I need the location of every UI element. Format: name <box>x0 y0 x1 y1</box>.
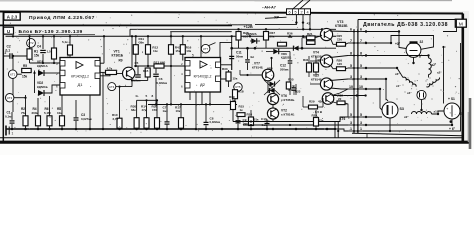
capacitor C7 1mk <box>166 105 168 122</box>
resistor R13 640 <box>154 64 164 68</box>
connector XP box with pins 6 5 2 4 <box>287 9 311 15</box>
wire D2 bottom pin stub 2 <box>189 92 191 100</box>
svg-text:75к: 75к <box>21 111 26 115</box>
resistor R37 20k <box>264 32 269 41</box>
svg-text:8: 8 <box>360 52 362 56</box>
wire D1 top pin to rail <box>103 36 105 63</box>
svg-text:5: 5 <box>146 94 148 98</box>
diode VD1 KD521A <box>38 70 44 76</box>
connector pin row 3 at y=125 <box>348 121 363 126</box>
diode VD6 KD522B <box>273 49 278 54</box>
wire R21 leads <box>302 37 307 39</box>
wire lower node row <box>233 121 273 123</box>
wire VT4 emitter to R26 <box>331 65 337 69</box>
svg-text:М: М <box>459 22 463 28</box>
svg-text:+ S1: + S1 <box>448 97 455 101</box>
svg-text:43к: 43к <box>318 100 323 104</box>
capacitor C4 on vertical wire <box>42 36 44 49</box>
wire row 5 into star <box>363 68 403 78</box>
wire tach bottom down <box>413 57 415 63</box>
svg-text:11к: 11к <box>153 49 158 53</box>
svg-text:10к: 10к <box>186 49 191 53</box>
wire R25 to row 7 <box>346 43 349 44</box>
wire D2 right pin upper <box>221 64 232 66</box>
svg-text:КТ6: КТ6 <box>340 117 346 121</box>
bottom left connector mark <box>6 126 14 136</box>
svg-text:7: 7 <box>360 39 362 43</box>
svg-text:15к: 15к <box>319 119 324 123</box>
svg-text:5: 5 <box>294 11 296 15</box>
wire KT3 right <box>14 97 26 99</box>
svg-text:5: 5 <box>360 64 362 68</box>
resistor R31 4.3k <box>307 63 312 72</box>
frame label box A2.3 <box>4 12 20 20</box>
resistor R12 11k <box>147 36 149 44</box>
connector pin row 5 at y=68 <box>348 64 363 69</box>
svg-text:х1°: х1° <box>396 84 401 88</box>
resistor R9 4.7k <box>106 70 117 74</box>
svg-text:51к: 51к <box>254 118 259 122</box>
inner frame line second <box>170 31 232 33</box>
op-amp D2 KR140UD1208 <box>181 54 221 93</box>
wire R5 node down <box>34 71 36 94</box>
resistor R7 5.1k top <box>69 36 71 45</box>
svg-text:R15: R15 <box>143 69 149 73</box>
motor box M symbol <box>455 19 466 27</box>
resistor R28 910 <box>236 32 241 41</box>
motor long right vertical <box>460 43 462 127</box>
capacitor C6 0.022mk <box>155 66 157 73</box>
svg-text:Блок БУ-139 2.390.139: Блок БУ-139 2.390.139 <box>19 29 83 35</box>
resistor R35 box <box>286 82 290 89</box>
svg-text:6: 6 <box>350 28 352 32</box>
svg-text:50мк: 50мк <box>236 54 244 58</box>
wire R1 bottom down <box>29 59 31 63</box>
svg-text:R5: R5 <box>23 64 27 68</box>
resistor R17 10k <box>180 105 182 118</box>
diode VD7 <box>269 81 274 86</box>
svg-text:R20: R20 <box>312 114 318 118</box>
transistor VT5 KT814B <box>320 78 332 90</box>
wire corner at KT7 down <box>220 42 232 57</box>
wire VT9 to rows <box>332 89 349 96</box>
wire inductor to S1 <box>432 111 445 114</box>
motor switch S3 circle <box>382 102 398 118</box>
svg-text:120: 120 <box>337 37 342 41</box>
svg-text:1мк: 1мк <box>163 109 169 113</box>
svg-text:5,1М: 5,1М <box>44 111 51 115</box>
capacitor C2 <box>10 53 12 59</box>
dot under S1 <box>450 120 453 123</box>
svg-text:22: 22 <box>338 97 342 101</box>
resistor R38 150 <box>156 100 158 117</box>
svg-text:0,1: 0,1 <box>6 49 11 53</box>
wire C3 to bus <box>75 121 77 129</box>
svg-text:+12В: +12В <box>244 25 253 29</box>
svg-text:15к: 15к <box>22 75 28 79</box>
wire XP pin 5 to +12V branch <box>255 15 296 25</box>
svg-text:Двигатель ДБ-038 3.120.038: Двигатель ДБ-038 3.120.038 <box>363 22 448 28</box>
wire D2 output right <box>221 72 227 79</box>
rail junction dots <box>12 35 311 37</box>
connector pin row 5 at y=117 <box>348 113 363 118</box>
wire G node row <box>137 99 158 101</box>
svg-text:6: 6 <box>288 11 290 15</box>
wire input from border <box>3 55 10 57</box>
svg-text:КТВ15Б: КТВ15Б <box>335 24 348 28</box>
wire XP pin 4 down to top rail <box>309 15 311 30</box>
svg-text:200к: 200к <box>32 111 39 115</box>
diode VD2 KD521B <box>38 90 44 96</box>
connector column left line <box>353 29 355 133</box>
scan speckles motor <box>396 73 441 104</box>
svg-text:С4: С4 <box>37 45 41 49</box>
svg-text:200мк: 200мк <box>280 67 289 71</box>
wire VT7 collector up <box>271 58 273 71</box>
svg-text:10к: 10к <box>176 109 181 113</box>
svg-text:5: 5 <box>67 54 69 58</box>
svg-text:1к: 1к <box>240 108 244 112</box>
motor star winding loops <box>403 77 440 98</box>
svg-text:0,022мк: 0,022мк <box>157 81 168 85</box>
svg-text:А 2.3: А 2.3 <box>7 15 18 20</box>
inner frame line upper <box>130 28 224 30</box>
motor horizontal inductor <box>412 112 432 114</box>
svg-text:U: U <box>7 29 10 34</box>
wire motor top right vertical <box>443 20 457 32</box>
svg-text:8: 8 <box>152 94 154 98</box>
outer frame top line <box>0 12 463 14</box>
wire row 6 to tach <box>363 32 406 49</box>
wire row 3 lower <box>243 124 348 126</box>
svg-text:х КТ814Б: х КТ814Б <box>281 112 295 116</box>
connector pin row 8 at y=55.5 <box>348 52 363 57</box>
motor box left border <box>357 20 359 134</box>
resistor R33 1k <box>228 70 230 72</box>
svg-text:15к: 15к <box>233 77 238 81</box>
wire VT7 emitter down <box>267 81 269 93</box>
connector pin row 6 at y=31.5 <box>348 28 363 33</box>
svg-text:10: 10 <box>349 85 353 89</box>
ground bus <box>6 128 336 130</box>
wire VT3 emitter to R25 <box>331 39 337 45</box>
svg-text:32: 32 <box>420 40 424 44</box>
svg-text:5: 5 <box>360 113 362 117</box>
wire XP left stub <box>265 17 287 18</box>
svg-text:G.: G. <box>136 94 139 98</box>
wire VT7 base left <box>240 74 262 76</box>
motor mid vertical x443 <box>443 47 445 104</box>
wire right of diodes <box>289 75 291 95</box>
svg-text:R33: R33 <box>222 67 228 71</box>
transistor VT1 KT361B <box>123 67 135 79</box>
wire VT2 emitter down <box>272 119 274 121</box>
wire R2 to bus <box>25 126 27 129</box>
paper background <box>0 0 474 155</box>
svg-text:R18: R18 <box>238 90 244 94</box>
capacitor C13 plates <box>292 88 296 90</box>
connector column right line <box>357 29 359 133</box>
vertical wire x303 lower <box>302 96 304 107</box>
wire KT4 to VT1 emitter <box>116 86 132 88</box>
transistor VT2 KT814B <box>267 108 278 119</box>
wire R26 to row 5 <box>346 67 349 70</box>
wire VT4 collector to row 8 <box>330 56 348 58</box>
wire node to VT7 base <box>239 70 241 75</box>
motor inner step line <box>366 133 368 137</box>
svg-text:4: 4 <box>306 11 308 15</box>
svg-text:0,1м: 0,1м <box>5 115 12 119</box>
svg-text:R24: R24 <box>318 58 324 62</box>
top feed rail right <box>224 28 336 30</box>
connector pin row 7 at y=43 <box>348 39 363 44</box>
frame label box U <box>4 27 14 34</box>
motor tach circle <box>406 41 421 57</box>
scan tint over drawing area <box>0 11 469 143</box>
capacitor C1 <box>10 121 15 123</box>
outer frame left border <box>2 12 4 143</box>
capacitor C14 below node <box>247 48 249 59</box>
svg-text:7: 7 <box>350 39 352 43</box>
wire R33 bottom <box>228 81 230 87</box>
wire R8 to bus <box>61 126 63 129</box>
svg-text:R29: R29 <box>309 100 315 104</box>
wire C11 down <box>231 60 233 71</box>
resistor R15 below node <box>145 68 150 77</box>
svg-text:R9: R9 <box>119 59 123 63</box>
svg-text:1: 1 <box>12 132 14 136</box>
capacitor C3 0.027mk <box>75 100 77 117</box>
wire VT5 emitter to row 10 <box>331 88 349 89</box>
wire D1 bottom to bus <box>89 95 91 129</box>
transistor VT4 KT815B <box>320 55 332 67</box>
svg-text:х2°: х2° <box>437 71 442 75</box>
rail y48 dots <box>230 47 303 50</box>
transistor VT7 KT814B <box>262 69 274 81</box>
outer frame bottom inner line <box>0 137 463 139</box>
resistor R21 51 <box>307 36 316 40</box>
mid node dots <box>135 65 173 67</box>
svg-text:4,7к: 4,7к <box>107 66 113 70</box>
row extra y95.5 <box>334 95 367 97</box>
svg-text:150: 150 <box>152 108 157 112</box>
vertical feed x231.7 <box>231 36 233 70</box>
svg-text:15к: 15к <box>34 54 40 58</box>
resistor R41 15k <box>170 32 172 45</box>
wire branch x13 down <box>12 56 14 112</box>
capacitor C8 0.022mk <box>205 105 207 123</box>
svg-text:3: 3 <box>350 75 352 79</box>
top scan edge line <box>0 0 452 2</box>
connector pin row 1 at y=131 <box>348 127 363 132</box>
diode VD9 on rail <box>293 46 298 51</box>
resistor R5 15k <box>22 68 32 72</box>
svg-text:КР140УД1,2: КР140УД1,2 <box>194 75 212 79</box>
wire R9 lead to bus <box>102 92 104 129</box>
connector pin row 3 at y=79 <box>348 75 363 80</box>
wire R12 down <box>147 54 149 66</box>
wire S3 bottom down <box>389 118 391 131</box>
rail y48 right <box>232 47 336 49</box>
wire x296 segment <box>295 84 297 95</box>
svg-text:3: 3 <box>360 121 362 125</box>
svg-text:КТ1: КТ1 <box>10 72 15 76</box>
resistor R22 second box <box>307 41 316 45</box>
svg-text:5: 5 <box>192 54 194 58</box>
top rail dots <box>237 28 323 30</box>
wire mid horizontal y104 <box>148 104 237 106</box>
svg-text:5: 5 <box>350 113 352 117</box>
wire KT1 to R5 <box>17 73 22 75</box>
scan dark right edge <box>469 98 472 149</box>
wire VT3 collector to row 6 <box>330 30 348 33</box>
ground bus dots <box>11 128 329 131</box>
wire row 5 lower to S3 <box>363 116 382 118</box>
svg-text:Ел: Ел <box>251 55 255 59</box>
resistor R3 <box>53 36 55 48</box>
svg-text:R31: R31 <box>303 58 309 62</box>
wire R9 left lead down to R10 <box>102 72 104 92</box>
wire D2 second bottom <box>209 92 211 105</box>
svg-text:2,7к: 2,7к <box>113 117 119 121</box>
resistor R36 13k <box>278 42 287 46</box>
wire C2 to R1 node <box>12 55 29 57</box>
resistor R6 5.1M <box>49 96 51 116</box>
svg-text:3: 3 <box>360 75 362 79</box>
test point KT3 <box>6 94 14 102</box>
svg-text:68к: 68к <box>131 108 136 112</box>
BU block top border line <box>0 24 232 26</box>
svg-text:R13 640: R13 640 <box>154 61 166 65</box>
vertical wire x323 <box>322 98 324 107</box>
capacitor C10 1mk <box>265 121 270 123</box>
outer frame right border <box>461 14 464 144</box>
resistor R18 1.5k <box>233 90 238 99</box>
wire R6 to bus <box>49 126 51 129</box>
wire base feeds to output transistors <box>321 35 322 36</box>
resistor R4 200k <box>37 98 39 116</box>
svg-text:⌐АН-А7: ⌐АН-А7 <box>262 5 276 9</box>
svg-text:20к: 20к <box>270 35 275 39</box>
node wire above D1 <box>30 62 71 64</box>
transistor VT9 output <box>322 93 334 105</box>
star center rotor circle <box>417 90 426 99</box>
svg-text:13к: 13к <box>288 35 293 39</box>
wire R11 down <box>135 54 137 66</box>
wire row 7 to tach right side <box>363 36 434 50</box>
resistor R24 <box>314 63 319 72</box>
scan speckle noise <box>7 14 462 137</box>
wire C12 vertical <box>289 52 291 61</box>
connector pin row 10 at y=89 <box>348 85 363 90</box>
test point KT7 with arrow <box>201 44 210 53</box>
transistor VT3 KTV15B <box>320 28 332 40</box>
wire VT6 to VT2 <box>272 105 274 108</box>
svg-text:0,027мк: 0,027мк <box>81 117 92 121</box>
wire row 8 to coil <box>363 56 429 59</box>
diode VD8 <box>269 88 274 93</box>
test point KT1 <box>8 70 17 79</box>
svg-text:1: 1 <box>350 127 352 131</box>
svg-text:10к: 10к <box>57 111 62 115</box>
resistor R2 75k <box>25 95 27 116</box>
svg-text:39к: 39к <box>139 41 144 45</box>
svg-text:Д1: Д1 <box>78 82 84 87</box>
svg-text:120: 120 <box>337 62 342 66</box>
svg-text:5,1к: 5,1к <box>62 40 68 44</box>
capacitor C9 1mk <box>236 121 241 123</box>
wire VT5 collector to row 3 <box>330 79 348 81</box>
wire XP pin 2 down to top rail <box>302 15 304 30</box>
svg-text:КР140УД1,2: КР140УД1,2 <box>71 75 89 79</box>
wire KT2 stub <box>29 36 31 49</box>
svg-text:8: 8 <box>350 52 352 56</box>
svg-text:10: 10 <box>359 85 363 89</box>
wire S1 down to rows <box>363 119 452 125</box>
transistor VT6 KT361B <box>267 93 278 104</box>
svg-text:КТ361Б: КТ361Б <box>112 53 124 57</box>
resistor R8 10k <box>61 95 63 116</box>
vertical pair to bottom edge <box>334 122 336 138</box>
svg-text:VD5: VD5 <box>267 67 273 71</box>
svg-text:КД521Б: КД521Б <box>37 85 48 89</box>
svg-text:2: 2 <box>300 11 302 15</box>
wire R7 down to D1 <box>69 55 71 58</box>
motor box bottom border <box>352 133 462 136</box>
test point KT2 <box>27 39 36 48</box>
cable wires to XA4-A7 going up <box>293 0 303 9</box>
svg-text:R21: R21 <box>307 32 313 36</box>
outer frame bottom thick line <box>0 141 470 144</box>
svg-text:R35: R35 <box>288 78 294 82</box>
svg-text:КТ4: КТ4 <box>109 85 114 89</box>
svg-text:КТ814Б: КТ814Б <box>252 65 264 69</box>
svg-text:х КТ361Б: х КТ361Б <box>281 98 295 102</box>
resistor R16 10k <box>182 36 184 44</box>
wire lower row to connector <box>273 117 348 122</box>
svg-text:3: 3 <box>350 121 352 125</box>
svg-text:+3°: +3° <box>395 42 401 46</box>
motor vertical winding coil <box>429 58 432 75</box>
op-amp D1 KR140UD1208 <box>56 54 100 96</box>
motor junction dots <box>365 30 453 132</box>
wire D2 bottom pin stub 3 <box>201 92 203 105</box>
wire C1 to bus <box>11 124 13 129</box>
wire VD2 to D1 input <box>44 85 60 93</box>
resistor R11 39k <box>135 36 137 44</box>
svg-text:R34: R34 <box>247 113 253 117</box>
resistor R10 2.7k <box>119 87 121 119</box>
svg-text:S3: S3 <box>400 107 404 111</box>
wire VT1 emitter down <box>131 78 133 87</box>
wire coil bottom to star arm <box>428 75 430 78</box>
resistor R1 <box>27 49 32 59</box>
main supply rail <box>6 35 337 37</box>
wire VD1 to D1 input <box>44 72 60 74</box>
BU border thin continuation <box>228 24 252 26</box>
svg-text:КТ814Б: КТ814Б <box>311 77 323 81</box>
resistor R14 47k <box>146 100 148 117</box>
motor sensor S1 circle <box>444 103 460 119</box>
wire D1 output to VT1 base <box>100 73 123 75</box>
svg-text:6: 6 <box>360 28 362 32</box>
wire row 10 to S3 left <box>363 89 382 110</box>
svg-text:к2°: к2° <box>432 63 437 67</box>
wire D2 top pin to rail <box>200 36 202 57</box>
test point KT5 <box>234 83 242 91</box>
subtitle underline <box>19 33 96 35</box>
wire row 1 bottom <box>363 127 461 131</box>
